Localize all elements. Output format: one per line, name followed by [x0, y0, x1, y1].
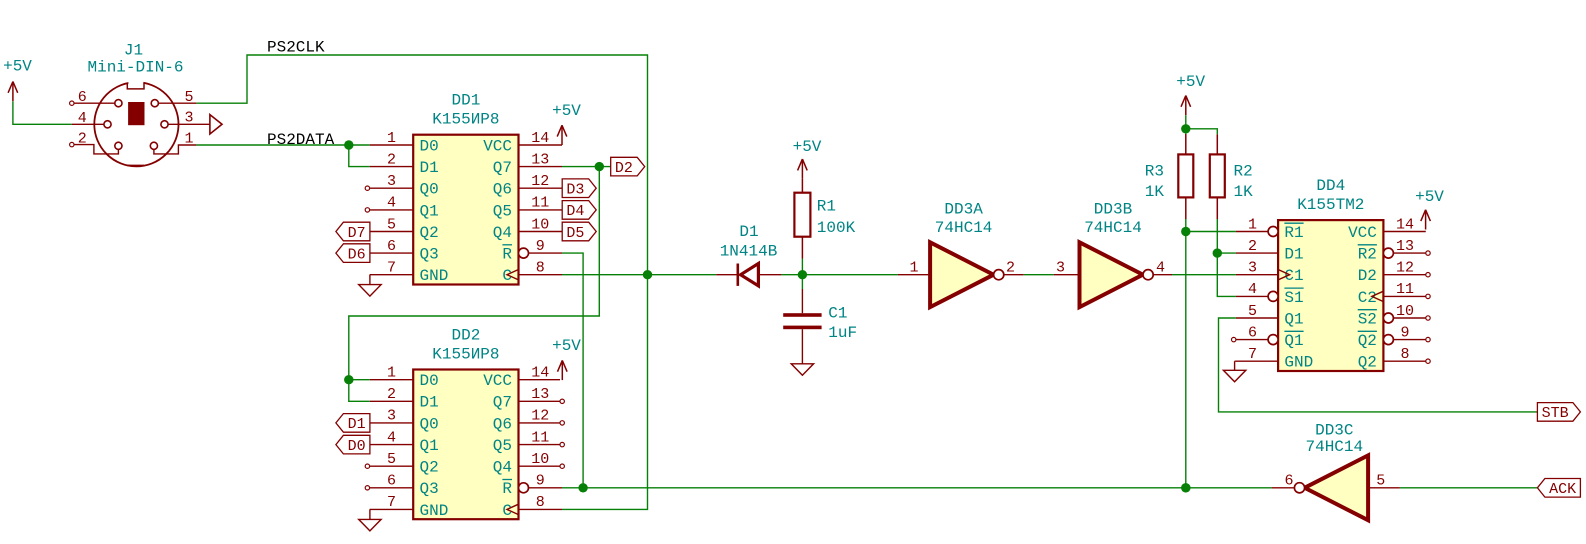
label PS2CLK [267, 38, 325, 56]
DD2 pin 11 (Q5) [493, 429, 565, 455]
svg-text:6: 6 [78, 89, 87, 106]
svg-text:Q3: Q3 [420, 246, 439, 264]
wire main DD1.C to diode [562, 274, 716, 276]
svg-text:Q6: Q6 [493, 415, 512, 433]
DD4 pin 5 (Q1) [1236, 303, 1304, 329]
svg-text:STB: STB [1542, 405, 1569, 422]
svg-text:D4: D4 [566, 203, 584, 220]
svg-text:1: 1 [387, 130, 396, 147]
DD2 pin 5 (Q2) [365, 451, 439, 477]
wire R3 to DD4 pin1 and down [1185, 219, 1187, 488]
svg-text:74HC14: 74HC14 [935, 219, 993, 237]
svg-text:2: 2 [78, 130, 87, 147]
svg-text:VCC: VCC [483, 137, 512, 155]
diode D1 1N414B [716, 264, 781, 286]
svg-text:74HC14: 74HC14 [1084, 219, 1142, 237]
svg-text:Q1: Q1 [1284, 310, 1303, 328]
op-amp DD3B 74HC14 inverter [1054, 242, 1172, 307]
svg-text:6: 6 [1248, 324, 1257, 341]
DD1 pin 3 (Q0) [365, 173, 439, 199]
svg-text:7: 7 [387, 494, 396, 511]
wire PS2DATA to DD1 pin2 [349, 145, 370, 167]
DD2 ref/value labels [432, 327, 499, 364]
DD3C labels [1305, 422, 1363, 456]
svg-text:4: 4 [1248, 281, 1257, 298]
DD2 pin 14 (VCC) [483, 365, 560, 391]
svg-text:K155TM2: K155TM2 [1297, 196, 1364, 214]
svg-text:DD4: DD4 [1316, 177, 1345, 195]
svg-text:Q2: Q2 [1358, 354, 1377, 372]
wire DD2 pin2 feed [349, 380, 370, 402]
global label D3 [562, 179, 596, 199]
wire DD1 R to DD2 R [562, 253, 583, 488]
svg-text:2: 2 [1248, 238, 1257, 255]
svg-text:VCC: VCC [1348, 224, 1377, 242]
svg-text:1: 1 [909, 260, 918, 277]
power +5V (DD2 VCC) [552, 337, 581, 380]
DD4 ref/value labels [1297, 177, 1364, 214]
J1 label [87, 42, 183, 77]
DD4 pin 11 (C2) [1358, 281, 1431, 307]
junction R1/C1/main [798, 270, 807, 279]
svg-text:5: 5 [1248, 303, 1257, 320]
ground (C1) [791, 364, 813, 376]
svg-text:R1: R1 [817, 198, 836, 216]
DD3B labels [1084, 200, 1142, 236]
svg-text:GND: GND [420, 267, 449, 285]
svg-text:R3: R3 [1145, 162, 1164, 180]
svg-text:GND: GND [420, 502, 449, 520]
svg-text:D5: D5 [566, 225, 584, 242]
svg-text:Q0: Q0 [420, 415, 439, 433]
svg-text:Q2: Q2 [420, 224, 439, 242]
svg-text:Q6: Q6 [493, 181, 512, 199]
svg-text:Q2: Q2 [420, 459, 439, 477]
svg-text:12: 12 [531, 173, 549, 190]
svg-text:11: 11 [531, 195, 549, 212]
svg-text:R2: R2 [1358, 246, 1377, 264]
DD4 pin 12 (D2) [1358, 260, 1431, 286]
svg-text:3: 3 [1248, 260, 1257, 277]
svg-text:D1: D1 [420, 159, 439, 177]
svg-text:K155ИР8: K155ИР8 [432, 111, 499, 129]
svg-text:13: 13 [531, 386, 549, 403]
svg-text:DD2: DD2 [451, 327, 480, 345]
J1 pin 3 [161, 110, 210, 128]
op-amp DD3C 74HC14 inverter (mirrored) [1272, 455, 1400, 520]
wire R2 to DD4 pin2 [1217, 219, 1236, 253]
ground (DD1 GND) [359, 275, 381, 296]
svg-text:6: 6 [1284, 472, 1293, 489]
svg-text:2: 2 [387, 386, 396, 403]
svg-text:Q4: Q4 [493, 459, 512, 477]
svg-text:9: 9 [536, 238, 545, 255]
svg-text:Q1: Q1 [420, 437, 439, 455]
svg-text:4: 4 [1156, 260, 1165, 277]
ground (DD2 GND) [359, 509, 381, 531]
svg-text:1K: 1K [1145, 183, 1165, 201]
DD4 pin 3 (C1) [1236, 260, 1304, 286]
svg-text:+5V: +5V [552, 102, 581, 120]
svg-text:D0: D0 [348, 438, 366, 455]
DD1 pin 14 (VCC) [483, 130, 562, 156]
svg-text:D6: D6 [348, 246, 366, 263]
wire PS2CLK [196, 55, 647, 275]
DD4 pin 9 (Q2) [1358, 324, 1431, 350]
svg-text:4: 4 [387, 195, 396, 212]
svg-text:11: 11 [1396, 281, 1414, 298]
svg-text:PS2DATA: PS2DATA [267, 131, 335, 149]
IC DD1 body K155ИР8 [413, 135, 518, 285]
label PS2DATA [267, 131, 335, 149]
svg-text:R: R [502, 480, 512, 498]
resistor R3 1K [1145, 134, 1194, 219]
junction R3/DD4 pin1 [1181, 227, 1190, 236]
connector J1 body [94, 80, 178, 167]
svg-text:Q1: Q1 [1284, 332, 1303, 350]
DD4 pin 10 (S2) [1358, 303, 1431, 329]
svg-text:GND: GND [1284, 354, 1313, 372]
capacitor C1 1uF [783, 289, 857, 364]
global label D1 [336, 414, 370, 434]
J1 pin 3 no-connect triangle [210, 115, 222, 134]
DD4 pin 2 (D1) [1236, 238, 1304, 264]
global label STB [1537, 403, 1580, 423]
svg-text:10: 10 [531, 216, 549, 233]
DD3A labels [935, 200, 993, 236]
global label D4 [562, 201, 596, 221]
wire PS2DATA [196, 144, 369, 146]
power +5V (DD1 VCC) [552, 102, 581, 145]
svg-text:3: 3 [387, 173, 396, 190]
DD2 pin 13 (Q7) [493, 386, 565, 412]
svg-text:Q5: Q5 [493, 202, 512, 220]
svg-text:74HC14: 74HC14 [1305, 438, 1363, 456]
DD4 pin6 no-connect [1232, 337, 1236, 341]
junction ACK/R3 column [1181, 483, 1190, 492]
global label D0 [336, 435, 370, 455]
svg-text:9: 9 [536, 473, 545, 490]
svg-text:5: 5 [1376, 472, 1385, 489]
svg-text:K155ИР8: K155ИР8 [432, 346, 499, 364]
svg-text:DD3A: DD3A [944, 200, 983, 218]
svg-text:D1: D1 [739, 223, 758, 241]
DD2 pin 7 (GND) [370, 494, 449, 520]
svg-text:S2: S2 [1358, 310, 1377, 328]
svg-text:+5V: +5V [1415, 188, 1444, 206]
svg-text:8: 8 [536, 260, 545, 277]
global label ACK [1537, 479, 1580, 499]
DD2 pin 6 (Q3) [365, 473, 439, 499]
svg-text:C1: C1 [828, 305, 847, 323]
svg-text:1: 1 [184, 130, 193, 147]
wire Q7 to DD2 [349, 167, 600, 380]
svg-text:Q0: Q0 [420, 181, 439, 199]
svg-text:R: R [502, 246, 512, 264]
DD4 pin 8 (Q2) [1358, 346, 1431, 372]
DD4 pin 14 (VCC) [1348, 216, 1426, 242]
svg-text:J1: J1 [124, 42, 143, 60]
power +5V (J1) [3, 58, 32, 102]
power +5V (DD4 VCC) [1415, 188, 1444, 230]
DD4 pin 13 (R2) [1358, 238, 1431, 264]
DD4 pin 4 (S1) [1236, 281, 1304, 307]
DD1 pin 8 (C) [502, 260, 562, 286]
svg-text:6: 6 [387, 473, 396, 490]
DD1 pin 7 (GND) [370, 260, 449, 286]
junction Q7/D2 [595, 162, 604, 171]
svg-text:R2: R2 [1234, 162, 1253, 180]
svg-text:12: 12 [531, 408, 549, 425]
J1 pin 1 [150, 130, 196, 154]
svg-text:D1: D1 [348, 416, 366, 433]
svg-text:D0: D0 [420, 137, 439, 155]
svg-text:13: 13 [531, 151, 549, 168]
junction ACK row [1181, 483, 1190, 492]
svg-text:DD3B: DD3B [1094, 200, 1132, 218]
svg-text:+5V: +5V [552, 337, 581, 355]
wire DD2 C from PS2CLK [562, 275, 648, 510]
junction R2/DD4 pin2 [1213, 248, 1222, 257]
DD4 pin 7 (GND) [1236, 346, 1313, 372]
svg-text:12: 12 [1396, 260, 1414, 277]
wire R net to DD3C [562, 487, 1272, 489]
DD1 pin 10 (Q4) [493, 216, 562, 242]
ground (DD4 GND) [1223, 361, 1245, 382]
wire +5V to J1 pin4 [13, 101, 72, 124]
svg-text:Q3: Q3 [420, 480, 439, 498]
wire R2 branch to DD4 pin4 [1217, 253, 1236, 296]
svg-text:R1: R1 [1284, 224, 1303, 242]
DD2 pin 9 (R) [502, 473, 562, 499]
svg-text:1K: 1K [1234, 183, 1254, 201]
svg-text:Q5: Q5 [493, 437, 512, 455]
wire branch to R2 [1186, 129, 1218, 135]
svg-text:1: 1 [1248, 216, 1257, 233]
DD4 pin 6 (Q1) [1236, 324, 1304, 350]
DD1 pin 2 (D1) [370, 151, 439, 177]
svg-text:D0: D0 [420, 372, 439, 390]
svg-text:100K: 100K [817, 219, 856, 237]
svg-text:3: 3 [1056, 260, 1065, 277]
op-amp DD3A 74HC14 inverter [898, 242, 1024, 307]
wire Q7 to label D2 [562, 166, 611, 168]
svg-text:Q7: Q7 [493, 159, 512, 177]
svg-text:3: 3 [387, 408, 396, 425]
DD1 pin 9 (R) [502, 238, 562, 264]
svg-text:Q2: Q2 [1358, 332, 1377, 350]
wire DD3A to DD3B [1024, 274, 1054, 276]
power +5V (R1) [793, 138, 822, 179]
svg-text:1: 1 [387, 365, 396, 382]
svg-text:5: 5 [387, 216, 396, 233]
svg-text:13: 13 [1396, 238, 1414, 255]
svg-text:7: 7 [387, 260, 396, 277]
D1 labels [720, 223, 778, 260]
svg-text:5: 5 [184, 89, 193, 106]
svg-text:4: 4 [387, 429, 396, 446]
junction PS2CLK/main [643, 270, 652, 279]
svg-text:Q4: Q4 [493, 224, 512, 242]
resistor R2 1K [1210, 134, 1253, 219]
svg-text:14: 14 [531, 130, 549, 147]
svg-text:10: 10 [1396, 303, 1414, 320]
svg-text:D1: D1 [420, 394, 439, 412]
svg-text:D7: D7 [348, 225, 366, 242]
wire diode to junction [781, 274, 898, 276]
svg-text:8: 8 [536, 494, 545, 511]
DD2 pin 1 (D0) [370, 365, 439, 391]
IC DD2 body K155ИР8 [413, 370, 518, 520]
DD2 pin 12 (Q6) [493, 408, 565, 434]
svg-text:1uF: 1uF [828, 324, 857, 342]
svg-text:14: 14 [1396, 216, 1414, 233]
DD2 pin 3 (Q0) [370, 408, 439, 434]
DD1 pin 13 (Q7) [493, 151, 562, 177]
wire +5V down to R3 [1185, 115, 1187, 134]
svg-text:10: 10 [531, 451, 549, 468]
svg-text:8: 8 [1400, 346, 1409, 363]
DD1 pin 5 (Q2) [370, 216, 439, 242]
svg-text:D1: D1 [1284, 246, 1303, 264]
junction DD2 pin1 [344, 375, 353, 384]
svg-text:4: 4 [78, 110, 87, 127]
svg-text:14: 14 [531, 365, 549, 382]
DD4 pin 1 (R1) [1236, 216, 1304, 242]
svg-text:9: 9 [1400, 324, 1409, 341]
svg-text:+5V: +5V [793, 138, 822, 156]
svg-text:2: 2 [1006, 260, 1015, 277]
global label D2 [611, 157, 645, 177]
DD1 pin 6 (Q3) [370, 238, 439, 264]
global label D6 [336, 244, 370, 264]
DD1 pin 12 (Q6) [493, 173, 562, 199]
svg-text:5: 5 [387, 451, 396, 468]
svg-text:11: 11 [531, 429, 549, 446]
DD1 pin 1 (D0) [370, 130, 439, 156]
power +5V (R2/R3) [1176, 73, 1205, 115]
svg-text:VCC: VCC [483, 372, 512, 390]
wire R1 to junction [801, 259, 803, 275]
svg-text:Mini-DIN-6: Mini-DIN-6 [87, 59, 183, 77]
DD2 pin 4 (Q1) [370, 429, 439, 455]
svg-text:DD1: DD1 [451, 92, 480, 110]
junction DD2 pin9 [578, 483, 587, 492]
DD2 pin 8 (C) [502, 494, 562, 520]
DD1 pin 11 (Q5) [493, 195, 562, 221]
DD2 pin 10 (Q4) [493, 451, 565, 477]
svg-text:+5V: +5V [3, 58, 32, 76]
IC DD4 body K155TM2 [1278, 220, 1383, 371]
J1 pin 2 [70, 130, 122, 154]
svg-text:3: 3 [184, 110, 193, 127]
svg-text:2: 2 [387, 151, 396, 168]
wire junction to DD4 pin1 [1186, 231, 1236, 233]
wire DD3B to DD4.C1 [1172, 274, 1236, 276]
junction +5V/R2 branch [1181, 124, 1190, 133]
svg-text:6: 6 [387, 238, 396, 255]
svg-text:ACK: ACK [1549, 481, 1576, 498]
svg-text:D3: D3 [566, 182, 584, 199]
J1 pin 5 [151, 89, 196, 107]
global label D7 [336, 222, 370, 242]
global label D5 [562, 222, 596, 242]
wire DD3C to ACK [1400, 487, 1538, 489]
svg-text:D2: D2 [1358, 267, 1377, 285]
wire STB [1219, 318, 1538, 412]
DD1 ref/value labels [432, 92, 499, 129]
svg-text:Q1: Q1 [420, 202, 439, 220]
J1 pin 4 [72, 110, 111, 128]
DD2 pin 2 (D1) [370, 386, 439, 412]
wire junction to C1 [801, 275, 803, 289]
svg-text:Q7: Q7 [493, 394, 512, 412]
svg-text:7: 7 [1248, 346, 1257, 363]
svg-text:1N414B: 1N414B [720, 242, 778, 260]
junction PS2DATA [344, 140, 353, 149]
DD1 pin 4 (Q1) [365, 195, 439, 221]
J1 pin 6 [70, 89, 122, 107]
svg-text:PS2CLK: PS2CLK [267, 38, 325, 56]
svg-text:D2: D2 [615, 160, 633, 177]
resistor R1 100K [794, 179, 855, 259]
svg-text:S1: S1 [1284, 289, 1303, 307]
svg-text:+5V: +5V [1176, 73, 1205, 91]
